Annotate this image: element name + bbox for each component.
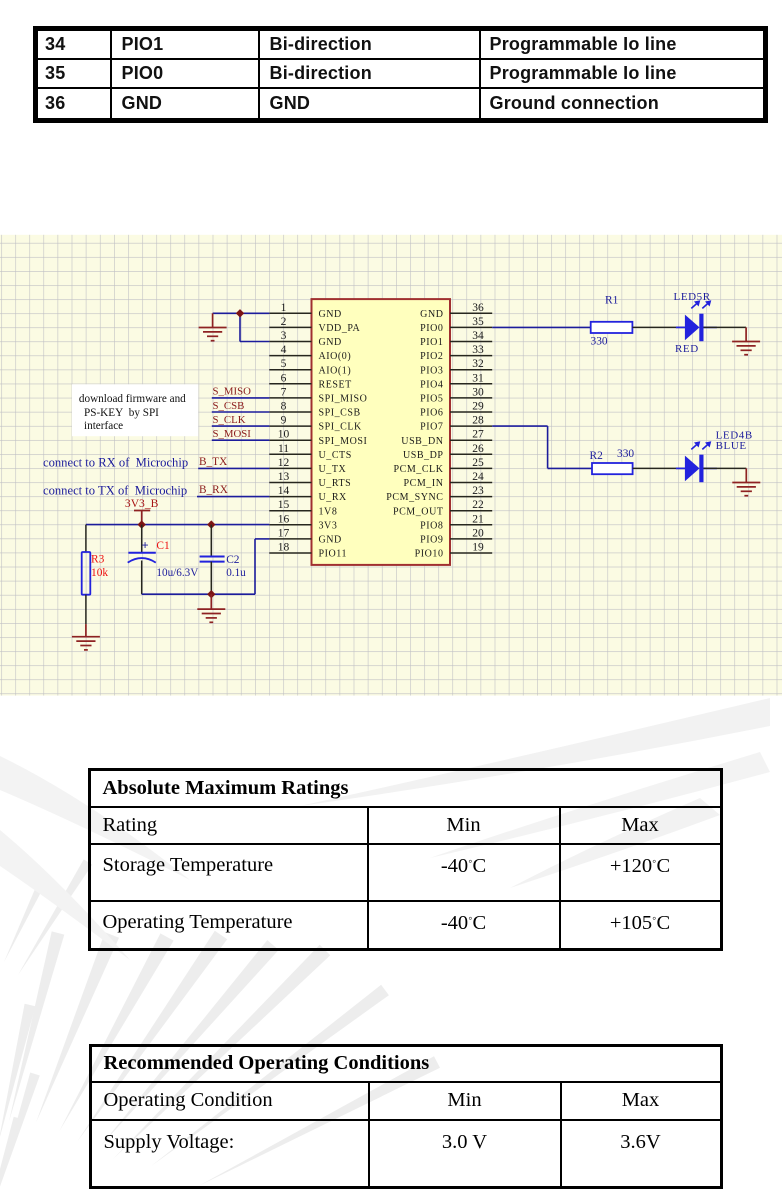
pin 5 line and label AIO(1) [269,358,351,376]
note connect to RX [43,455,188,469]
svg-text:S_MISO: S_MISO [213,386,252,398]
wire 3V3 rail to pin 16 [86,524,269,526]
pin 16 line and label 3V3 [269,513,337,531]
pin 15 line and label 1V8 [269,499,337,517]
svg-text:12: 12 [278,457,290,469]
svg-text:22: 22 [472,499,484,511]
svg-text:27: 27 [472,429,484,441]
wire net S_CLK to pin 9 [212,425,269,427]
svg-text:S_MOSI: S_MOSI [213,428,252,440]
wire LED5R to ground [704,326,747,328]
svg-text:C1: C1 [156,540,170,552]
svg-text:PIO8: PIO8 [420,520,443,531]
svg-text:15: 15 [278,499,290,511]
pin 35 line and label PIO0 [420,316,492,334]
pin 27 line and label USB_DN [401,429,492,447]
svg-text:PIO2: PIO2 [420,351,443,362]
pin 2 line and label VDD_PA [269,316,360,334]
svg-text:U_TX: U_TX [319,464,347,475]
pin 25 line and label PCM_CLK [394,457,493,475]
svg-text:PIO9: PIO9 [420,535,443,546]
svg-text:R2: R2 [590,450,604,462]
wire R2 to LED4B [633,467,685,469]
svg-text:10k: 10k [91,567,108,579]
svg-text:connect to RX of Microchip: connect to RX of Microchip [43,455,188,469]
svg-text:AIO(1): AIO(1) [319,365,352,376]
svg-text:interface: interface [84,420,123,432]
node label S_MISO [213,386,252,398]
resistor R1 330 [591,295,633,348]
svg-text:24: 24 [472,471,484,483]
svg-text:10: 10 [278,429,290,441]
pin 13 line and label U_RTS [269,471,351,489]
pin 8 line and label SPI_CSB [269,401,360,419]
wire pin 35 to R1 [492,326,591,328]
svg-text:8: 8 [281,401,287,413]
pin 24 line and label PCM_IN [404,471,493,489]
svg-text:PIO10: PIO10 [415,549,444,560]
wire C2 to rail bottom [210,562,212,595]
svg-text:U_RX: U_RX [319,492,348,503]
pin 34 line and label PIO1 [420,330,492,348]
svg-text:PCM_IN: PCM_IN [404,478,444,489]
svg-text:0.1u: 0.1u [226,567,246,579]
svg-text:RED: RED [675,343,699,355]
svg-text:USB_DN: USB_DN [401,436,443,447]
svg-text:1V8: 1V8 [319,506,338,517]
svg-text:7: 7 [281,386,287,398]
svg-text:23: 23 [472,485,484,497]
ground right of LED4B [732,468,760,495]
Absolute Maximum Ratings table [88,768,723,951]
note connect to TX [43,484,187,498]
pin 31 line and label PIO4 [420,372,492,390]
node label B_TX [199,456,227,468]
svg-text:9: 9 [281,415,287,427]
svg-text:3: 3 [281,330,287,342]
svg-text:29: 29 [472,401,484,413]
svg-text:36: 36 [472,302,484,314]
svg-text:19: 19 [472,542,484,554]
svg-text:25: 25 [472,457,484,469]
svg-text:R3: R3 [91,554,105,566]
svg-text:21: 21 [472,513,484,525]
svg-text:13: 13 [278,471,290,483]
pin 11 line and label U_CTS [269,443,352,461]
svg-text:11: 11 [278,443,289,455]
resistor R2 330 [590,448,635,474]
node junction C2 [207,520,215,528]
pin 10 line and label SPI_MOSI [269,429,367,447]
svg-text:10u/6.3V: 10u/6.3V [156,567,198,579]
svg-text:35: 35 [472,316,484,328]
svg-text:14: 14 [278,485,290,497]
pin 23 line and label PCM_SYNC [386,485,492,503]
node label S_CLK [213,414,246,426]
svg-text:32: 32 [472,358,484,370]
svg-text:PIO4: PIO4 [420,379,443,390]
svg-text:PIO7: PIO7 [420,422,443,433]
svg-text:BLUE: BLUE [716,440,747,452]
svg-text:28: 28 [472,415,484,427]
pin 29 line and label PIO6 [420,401,492,419]
svg-text:3V3: 3V3 [319,520,338,531]
svg-text:GND: GND [420,309,443,320]
ground below rail [197,594,225,622]
svg-text:+: + [141,539,148,553]
svg-text:30: 30 [472,386,484,398]
pin 17 line and label GND [269,527,342,545]
wire pin 28 to R2 [492,426,592,468]
svg-text:R1: R1 [605,295,619,307]
svg-text:3V3_B: 3V3_B [125,497,159,510]
svg-text:PIO11: PIO11 [319,549,348,560]
pin 7 line and label SPI_MISO [269,386,367,404]
pin 9 line and label SPI_CLK [269,415,362,433]
svg-text:AIO(0): AIO(0) [319,351,352,362]
IC U1 Bluetooth module body [312,299,451,565]
svg-text:17: 17 [278,527,290,539]
svg-text:33: 33 [472,344,484,356]
node junction C1 [138,520,146,528]
svg-text:6: 6 [281,372,287,384]
svg-text:PIO0: PIO0 [420,323,443,334]
ground right of LED5R [732,327,760,354]
capacitor C2 [200,554,247,579]
LED4B diode [676,430,753,483]
svg-text:1: 1 [281,302,287,314]
wire net S_MISO to pin 7 [212,397,269,399]
wire ground rail to pin 17 [142,539,270,594]
power port 3V3_B [125,497,159,525]
svg-text:PIO6: PIO6 [420,408,443,419]
svg-text:31: 31 [472,372,484,384]
svg-text:5: 5 [281,358,287,370]
svg-text:SPI_MISO: SPI_MISO [319,394,368,405]
pin 4 line and label AIO(0) [269,344,351,362]
svg-text:GND: GND [319,337,342,348]
svg-text:2: 2 [281,316,287,328]
svg-text:330: 330 [617,448,634,460]
node label S_MOSI [213,428,252,440]
wire net B_RX to pin 14 [197,496,269,498]
svg-text:SPI_CSB: SPI_CSB [319,408,361,419]
wire R1 to LED5R [632,326,685,328]
svg-text:18: 18 [278,542,290,554]
Recommended Operating Conditions table [89,1044,723,1189]
pin 20 line and label PIO9 [420,527,492,545]
wire R3 to ground [85,595,87,624]
wire C1 to rail bottom [141,561,143,595]
pin 3 line and label GND [269,330,342,348]
svg-text:PIO5: PIO5 [420,394,443,405]
wire net S_MOSI to pin 10 [212,439,269,441]
svg-text:PS-KEY by SPI: PS-KEY by SPI [84,407,159,419]
pin 12 line and label U_TX [269,457,346,475]
svg-text:GND: GND [319,535,342,546]
wire net S_CSB to pin 8 [212,411,269,413]
wire LED4B to ground [704,467,747,469]
svg-text:SPI_CLK: SPI_CLK [319,422,363,433]
svg-text:PIO3: PIO3 [420,365,443,376]
wire junction to pin3 [240,313,269,341]
svg-text:20: 20 [472,527,484,539]
pin 26 line and label USB_DP [403,443,492,461]
note box: download firmware [72,384,198,436]
svg-text:C2: C2 [226,554,240,566]
svg-text:PIO1: PIO1 [420,337,443,348]
svg-text:U_CTS: U_CTS [319,450,352,461]
node label B_RX [199,484,228,496]
wire rail to R3 [85,525,87,552]
svg-text:26: 26 [472,443,484,455]
pin 14 line and label U_RX [269,485,347,503]
svg-text:B_TX: B_TX [199,456,227,468]
schematic sheet background grid [0,235,782,696]
wire rail to C2 [210,525,212,557]
svg-text:GND: GND [319,309,342,320]
node junction ground rail [207,590,215,598]
svg-text:USB_DP: USB_DP [403,450,444,461]
pin 21 line and label PIO8 [420,513,492,531]
capacitor C1 [128,539,199,580]
svg-text:RESET: RESET [319,379,352,390]
svg-text:download firmware and: download firmware and [79,393,186,405]
svg-text:PCM_OUT: PCM_OUT [393,506,444,517]
node junction pins 1-3 [236,309,244,317]
pin 18 line and label PIO11 [269,542,347,560]
svg-text:VDD_PA: VDD_PA [319,323,361,334]
svg-text:U_RTS: U_RTS [319,478,352,489]
svg-text:LED5R: LED5R [674,291,711,303]
pin 22 line and label PCM_OUT [393,499,492,517]
pin 19 line and label PIO10 [415,542,493,560]
pin 30 line and label PIO5 [420,386,492,404]
ground GND top-left [199,313,227,340]
node label S_CSB [213,400,245,412]
svg-text:34: 34 [472,330,484,342]
pin 28 line and label PIO7 [420,415,492,433]
svg-text:S_CLK: S_CLK [213,414,246,426]
pin 32 line and label PIO3 [420,358,492,376]
resistor R3 [82,552,109,595]
svg-text:330: 330 [591,336,608,348]
svg-text:PCM_CLK: PCM_CLK [394,464,444,475]
svg-text:PCM_SYNC: PCM_SYNC [386,492,443,503]
svg-text:4: 4 [281,344,287,356]
svg-text:SPI_MOSI: SPI_MOSI [319,436,368,447]
svg-text:S_CSB: S_CSB [213,400,245,412]
pin 6 line and label RESET [269,372,352,390]
pin 36 line and label GND [420,302,492,320]
ground below R3 [72,624,100,650]
svg-text:B_RX: B_RX [199,484,228,496]
LED5R diode [674,291,717,355]
pin 33 line and label PIO2 [420,344,492,362]
svg-text:16: 16 [278,513,290,525]
svg-text:connect to TX of Microchip: connect to TX of Microchip [43,484,187,498]
pin 1 line and label GND [269,302,342,320]
wire rail to C1 [141,525,143,552]
wire pin1 to ground [213,312,270,314]
wire net B_TX to pin 12 [198,467,269,469]
